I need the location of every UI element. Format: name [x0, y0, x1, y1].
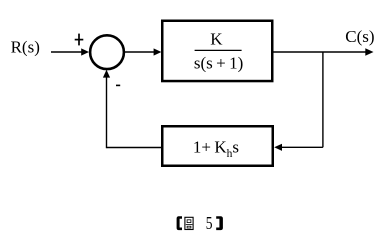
svg-text:s(s + 1): s(s + 1)	[194, 53, 243, 72]
svg-text:1+ Khs: 1+ Khs	[193, 138, 239, 160]
svg-text:R(s): R(s)	[11, 38, 40, 57]
svg-text:C(s): C(s)	[345, 27, 374, 46]
svg-text:K: K	[210, 29, 223, 48]
svg-text:5: 5	[206, 214, 213, 233]
